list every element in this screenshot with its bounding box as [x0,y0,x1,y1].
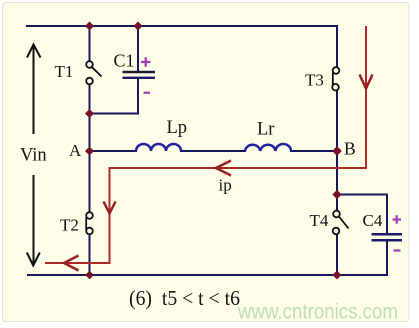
svg-text:C1: C1 [114,51,135,71]
svg-text:T3: T3 [305,71,324,90]
svg-text:Lp: Lp [167,118,188,138]
svg-text:Vin: Vin [20,146,47,166]
svg-text:Lr: Lr [257,120,274,140]
svg-text:C4: C4 [363,211,383,230]
svg-text:T2: T2 [60,216,79,235]
svg-text:www.cntronics.com: www.cntronics.com [237,300,398,324]
svg-text:ip: ip [219,176,232,195]
svg-text:T4: T4 [310,211,329,230]
svg-text:A: A [69,141,82,160]
svg-text:B: B [344,139,356,159]
svg-text:(6) t5 < t < t6: (6) t5 < t < t6 [129,286,240,310]
svg-text:T1: T1 [55,62,74,81]
